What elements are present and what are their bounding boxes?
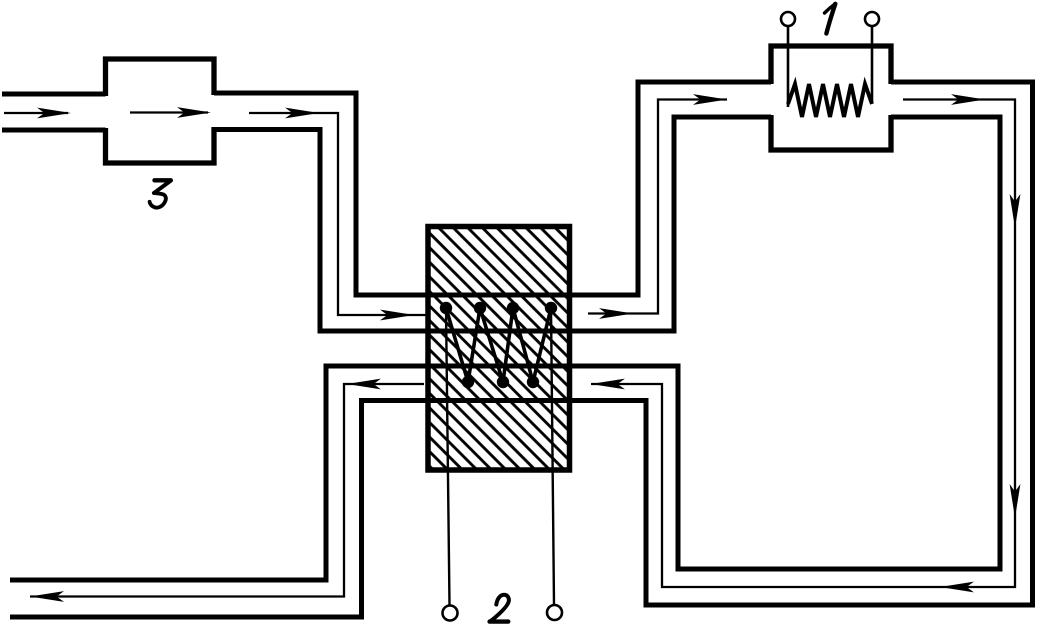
flow line: arrow inside restrictor 3: [130, 107, 211, 118]
heater 1 zigzag element: [788, 84, 872, 117]
wire outer pipe wall: inlet top wall: [2, 92, 106, 97]
wire thermopile left lead: [446, 308, 450, 605]
wire pipe A inner wall (box3 to heater, incl. upper channel bottom wall): [214, 117, 771, 331]
thermopile zigzag inside block 2: [446, 308, 551, 382]
label 1 (heater): [825, 4, 836, 34]
terminal circle right (output 2): [547, 605, 562, 620]
wire pipe A outer wall (box3 to heater, incl. upper channel top wall): [214, 82, 771, 295]
block 2 hatched body: [428, 227, 570, 471]
terminal circle heater right: [865, 12, 879, 26]
label 3 (restrictor): [150, 180, 171, 207]
restrictor 3 lower outline: [106, 127, 215, 163]
flow line: inlet arrow: [4, 108, 71, 119]
wire heater terminal lead right: [871, 26, 874, 103]
heater 1 upper outline: [771, 46, 891, 84]
thermopile junction dots bottom row: [462, 376, 539, 388]
wire heater terminal lead left: [787, 26, 790, 107]
restrictor 3 upper outline: [106, 59, 215, 96]
flow line: lower channel left, down, exit left (two arrows): [30, 379, 424, 602]
label 2 (thermopile terminals): [490, 595, 509, 622]
wire inlet bottom wall: [2, 128, 106, 133]
terminal circle left (output 2): [443, 606, 458, 621]
flow line: upper channel right to heater (two arrows): [588, 94, 727, 319]
terminal circle heater left: [781, 12, 795, 26]
wire thermopile right lead: [551, 308, 554, 604]
heater 1 lower outline: [771, 115, 891, 150]
flow line: heater out, right loop down, bottom, up to lower channel (five arrows): [591, 94, 1020, 592]
flow line: box3 to upper channel (with two arrows): [249, 108, 426, 321]
thermopile junction dots top row: [440, 302, 557, 314]
wire pipe B inner wall (heater right, down, bottom, up, lower channel top wall, exit): [10, 117, 1000, 580]
